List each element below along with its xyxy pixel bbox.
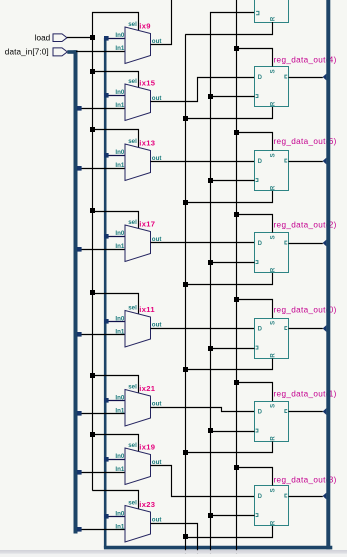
input port data_in[7:0] [5,48,68,57]
wire In0 feedback tap ix15 [104,93,125,98]
svg-text:sel: sel [128,384,137,391]
svg-text:S: S [271,488,277,492]
bus reg_data_out feedback vertical [104,38,332,548]
wire C feed reg_data_out(3) [208,513,255,518]
svg-text:sel: sel [128,219,137,226]
svg-text:load: load [35,34,51,43]
wire S feed reg_data_out(1) [234,380,273,401]
wire R feed reg_data_out(0) [183,359,273,373]
svg-text:S: S [271,321,277,325]
svg-text:out: out [152,517,162,524]
wire R feed reg_data_out(2) [183,273,273,287]
mux ix15 [115,78,161,120]
svg-text:In0: In0 [115,511,124,518]
wire out ix23 off-screen [151,524,198,557]
flip-flop reg_data_out(0) [255,319,289,359]
svg-text:In1: In1 [115,243,124,250]
svg-text:S: S [271,235,277,239]
wire out ix21 to D of reg_data_out(1) [151,408,255,412]
svg-text:out: out [152,322,162,329]
wire out ix15 to D of reg_data_out(4) [151,78,255,102]
wire Q to bus reg_data_out(0) [289,325,327,332]
wire sel feed ix19 [90,432,139,452]
wire C net vertical [211,13,255,557]
wire C feed reg_data_out(4) [208,94,255,99]
wire Q to bus reg_data_out(2) [289,240,327,247]
svg-text:In0: In0 [115,230,124,237]
wire In0 feedback tap ix21 [104,398,125,403]
svg-text:In1: In1 [115,466,124,473]
flip-flop top partial [255,0,289,23]
svg-text:S: S [271,69,277,73]
svg-text:D: D [258,409,263,415]
wire C feed reg_data_out(2) [208,260,255,265]
mux ix21 [115,384,161,426]
wire In1 data tap ix19 [77,470,125,475]
wire sel feed ix13 [90,127,139,148]
svg-text:R: R [271,436,277,441]
wire sel feed ix15 [90,69,139,88]
wire Q to bus reg_data_out(3) [289,493,327,500]
svg-text:sel: sel [128,442,137,449]
wire In0 feedback tap ix23 [104,514,125,519]
wire sel feed ix17 [90,208,139,229]
svg-text:D: D [258,75,263,81]
wire out ix13 to D of reg_data_out(6) [151,161,255,163]
svg-text:D: D [258,326,263,332]
viewport bottom edge [0,550,347,553]
mux ix19 [115,442,161,484]
svg-text:sel: sel [128,21,137,28]
mux ix23 [115,500,161,542]
wire S feed reg_data_out(0) [234,297,273,318]
flip-flop reg_data_out(3) [255,486,289,526]
wire sel feed ix23 [92,491,138,510]
wire load net vertical [93,13,139,491]
wire Q to bus reg_data_out(6) [289,158,327,165]
svg-text:R: R [270,16,276,21]
wire S feed reg_data_out(6) [234,130,273,151]
svg-text:R: R [271,520,277,525]
wire In1 data tap ix13 [77,166,125,171]
wire In1 data tap ix23 [77,527,125,532]
svg-text:ix11: ix11 [139,305,155,314]
svg-text:D: D [258,241,263,247]
svg-text:ix13: ix13 [139,139,155,148]
wire In1 data tap ix9 [76,51,125,53]
flip-flop reg_data_out(2) [255,233,289,273]
wire R feed reg_data_out(3) [183,526,273,539]
svg-text:sel: sel [128,138,137,145]
svg-text:ix15: ix15 [139,79,155,88]
wire sel feed ix21 [90,373,139,393]
svg-text:In0: In0 [115,149,124,156]
svg-text:out: out [152,401,162,408]
mux ix17 [115,219,161,261]
input port load [35,34,67,43]
svg-text:sel: sel [128,78,137,85]
wire out ix17 to D of reg_data_out(2) [151,242,255,244]
wire sel feed ix11 [90,290,139,314]
svg-text:In1: In1 [115,102,124,109]
svg-text:ix9: ix9 [139,22,150,31]
wire S net vertical [236,0,238,557]
svg-text:R: R [271,185,277,190]
svg-text:In0: In0 [115,32,124,39]
svg-text:ix19: ix19 [139,443,155,452]
wire In0 feedback tap ix13 [104,153,125,158]
wire Q to bus reg_data_out(4) [289,74,327,81]
svg-text:D: D [258,159,263,165]
wire load port to junction [67,37,92,39]
svg-text:In1: In1 [115,407,124,414]
svg-text:ix23: ix23 [139,500,155,509]
svg-text:R: R [271,101,277,106]
svg-text:In1: In1 [115,162,124,169]
svg-text:sel: sel [128,500,137,507]
wire R pin top flip-flop [185,22,272,35]
wire In1 data tap ix15 [77,106,125,111]
svg-text:R: R [271,267,277,272]
wire In1 data tap ix11 [77,332,125,337]
wire Q to bus reg_data_out(1) [289,408,327,415]
wire out ix9 to top flip-flop [151,0,172,45]
flip-flop reg_data_out(6) [255,151,289,191]
wire R feed reg_data_out(6) [183,191,273,205]
svg-text:R: R [271,353,277,358]
svg-text:S: S [271,404,277,408]
wire In0 feedback tap ix11 [104,319,125,324]
wire C feed reg_data_out(1) [208,428,255,433]
wire In1 data tap ix21 [77,411,125,416]
svg-text:In1: In1 [115,45,124,52]
wire out ix11 to D of reg_data_out(0) [151,328,255,330]
wire R feed reg_data_out(1) [183,442,273,456]
wire R net vertical [185,35,187,557]
bus reg_data_out right vertical [326,0,330,549]
wire data_in port to bus [67,50,77,54]
svg-text:In0: In0 [115,316,124,323]
wire In0 feedback tap ix17 [104,234,125,239]
svg-text:In0: In0 [115,395,124,402]
flip-flop reg_data_out(1) [255,402,289,442]
svg-text:In0: In0 [115,89,124,96]
mux ix9 [115,21,161,63]
svg-text:In0: In0 [115,453,124,460]
svg-text:data_in[7:0]: data_in[7:0] [5,48,49,57]
wire S feed reg_data_out(4) [234,46,273,67]
wire S feed reg_data_out(2) [234,212,273,233]
svg-text:In1: In1 [115,523,124,530]
svg-text:S: S [271,153,277,157]
mux ix11 [115,305,161,347]
svg-text:In1: In1 [115,328,124,335]
junction load port [90,35,95,40]
wire In1 data tap ix17 [77,247,125,252]
wire C feed reg_data_out(0) [208,346,255,351]
wire C feed reg_data_out(6) [208,178,255,183]
svg-text:ix17: ix17 [139,220,155,229]
svg-text:sel: sel [128,305,137,312]
wire In0 feedback tap ix9 [104,36,125,41]
mux ix13 [115,138,161,180]
bus data_in[7:0] vertical [74,50,78,533]
svg-text:ix21: ix21 [139,384,155,393]
svg-text:D: D [258,494,263,500]
flip-flop reg_data_out(4) [255,67,289,107]
wire S feed reg_data_out(3) [234,465,273,486]
wire out ix19 to D of reg_data_out(3) [151,466,255,497]
wire In0 feedback tap ix19 [104,457,125,462]
wire R feed reg_data_out(4) [183,107,273,121]
